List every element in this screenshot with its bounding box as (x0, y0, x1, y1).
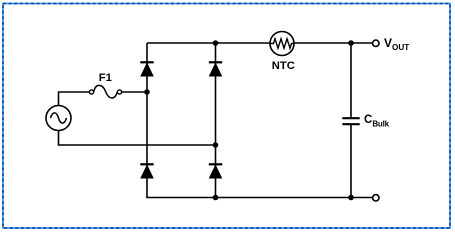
wire: right bridge column (215, 43, 217, 198)
thermistor NTC (270, 32, 294, 56)
node: top rail / right column (213, 40, 219, 46)
diode D2 (top-right) (209, 62, 222, 76)
wire: ac source top to fuse (59, 92, 90, 106)
wire: fuse to bridge left node (122, 91, 147, 93)
node: middle rail / right column (213, 142, 219, 148)
fuse F1 (89, 85, 121, 98)
diode D3 (bottom-left) (140, 164, 153, 178)
wire: left bridge column (146, 43, 148, 198)
svg-text:NTC: NTC (272, 60, 295, 72)
diode D1 (top-left) (140, 62, 153, 76)
wire: top rail NTC to Vout node (294, 42, 373, 44)
wire: top rail left of NTC (147, 42, 270, 44)
terminal Vout (373, 40, 379, 46)
terminal return (373, 195, 379, 201)
wire: middle rail (ac bottom to right column) (59, 131, 216, 146)
ac source (46, 106, 71, 131)
wire: bottom rail (146, 197, 372, 199)
diode D4 (bottom-right) (209, 164, 222, 178)
node: bottom rail / right column (213, 195, 219, 201)
svg-text:F1: F1 (99, 72, 112, 84)
capacitor C_Bulk (342, 43, 359, 198)
node: top rail / capacitor (348, 40, 354, 46)
node: bottom rail / capacitor (348, 195, 354, 201)
node: fuse/bridge junction (144, 89, 150, 95)
